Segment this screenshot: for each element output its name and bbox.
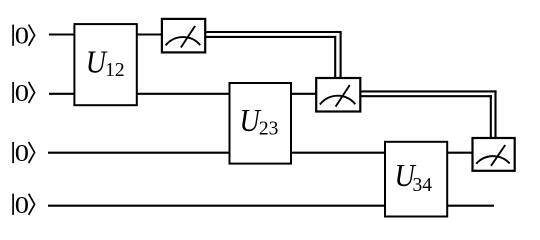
- classical double wire from M1, horizontal bottom line: [205, 36, 336, 38]
- meter M1 dial arc: [166, 37, 201, 45]
- wire q1 segment b: [136, 33, 162, 35]
- svg-text:0: 0: [15, 139, 29, 167]
- meter M2 needle: [336, 85, 350, 107]
- wire q3 segment b: [290, 152, 386, 154]
- classical double wire from M2, horizontal top line: [360, 90, 496, 92]
- wire q1 segment a: [49, 33, 75, 35]
- wire q4 segment a: [48, 205, 386, 207]
- meter M2 dial arc: [320, 96, 355, 105]
- svg-text:0: 0: [15, 79, 29, 107]
- classical double wire into M3, vertical right line: [494, 90, 496, 139]
- svg-text:12: 12: [105, 60, 125, 81]
- meter M3 needle: [491, 145, 505, 166]
- measurement meter M3 box: [473, 138, 515, 171]
- meter M3 dial arc: [476, 156, 510, 164]
- wire q3 segment c: [446, 152, 473, 154]
- svg-text:0: 0: [15, 22, 29, 50]
- qubit ket |0> q3: [13, 142, 34, 163]
- svg-text:23: 23: [259, 118, 279, 139]
- gate U12 box: [74, 24, 136, 105]
- qubit ket |0> q4: [13, 194, 34, 215]
- measurement meter M2 box: [316, 78, 360, 112]
- wire q4 segment b: [446, 205, 494, 207]
- classical double wire into M2, vertical left line: [334, 36, 336, 79]
- wire q3 segment a: [48, 152, 230, 154]
- wire q2 segment c: [290, 93, 317, 95]
- classical double wire into M2, vertical right line: [340, 31, 342, 79]
- measurement meter M1 box: [162, 19, 205, 53]
- qubit ket |0> q1: [13, 25, 34, 46]
- svg-text:34: 34: [413, 175, 433, 196]
- wire q2 segment b: [136, 93, 230, 95]
- qubit ket |0> q2: [13, 82, 34, 103]
- svg-text:0: 0: [15, 191, 29, 219]
- gate U34 box: [385, 142, 447, 217]
- classical double wire into M3, vertical left line: [490, 95, 492, 139]
- gate U23 box: [230, 83, 292, 164]
- classical double wire from M1, horizontal top line: [205, 31, 341, 33]
- wire q2 segment a: [49, 93, 75, 95]
- classical double wire from M2, horizontal bottom line: [360, 95, 492, 97]
- meter M1 needle: [181, 26, 195, 48]
